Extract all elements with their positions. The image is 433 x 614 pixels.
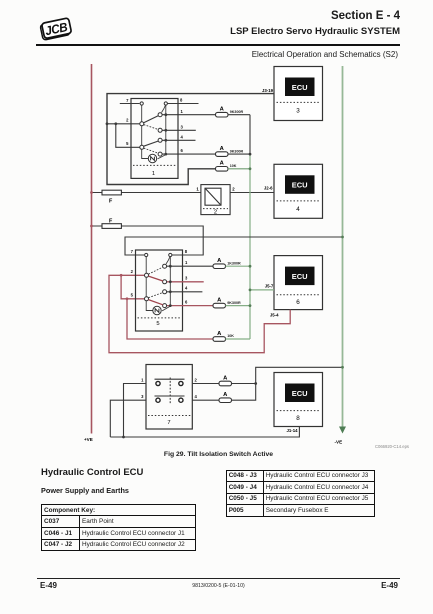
svg-text:A: A: [220, 107, 225, 113]
figure caption: [0, 451, 433, 458]
svg-text:2: 2: [214, 210, 217, 216]
svg-text:5: 5: [126, 141, 129, 146]
footer left page number: [40, 581, 57, 590]
SW5 pin 3 stub wire (live): [167, 281, 204, 283]
fuse F2 feed wire to SW5 pin 8: [92, 226, 204, 255]
ECU connector block 3 (C048-J3): [274, 67, 323, 121]
junction at (255.7,383.5): [254, 382, 257, 385]
svg-text:7: 7: [131, 249, 134, 254]
SW1 pin 4 stub wire: [162, 139, 196, 141]
wire: relay pin 1 to J1-14 rail: [124, 384, 147, 438]
svg-text:10K: 10K: [227, 334, 234, 338]
section heading: [41, 467, 143, 478]
SW5 fixed contact pin 6: [163, 304, 167, 308]
ECU connector block 8 (C046-J1): [274, 373, 323, 427]
SW1 fixed contact pin 4: [158, 138, 162, 142]
svg-text:A: A: [220, 146, 225, 152]
wire: resistor A1 output to sense bus: [228, 114, 250, 116]
SW1 contact pin 7: [140, 102, 143, 105]
svg-text:A: A: [223, 375, 228, 381]
SW1 fixed contact pin 3: [158, 128, 162, 132]
wire: SW1 pin 1 to resistor A1: [162, 114, 216, 116]
wire: resistor A4 output to sense bus: [226, 265, 251, 267]
svg-text:8: 8: [296, 415, 300, 422]
svg-text:9K300R: 9K300R: [230, 149, 244, 153]
component key table (left): [41, 504, 196, 551]
svg-text:J5-7: J5-7: [265, 284, 274, 289]
SW1 contact pin 8: [164, 102, 167, 105]
resistor A1 (9K300R) body: [216, 112, 229, 117]
junction on +VE rail at fuse F1: [90, 191, 93, 194]
svg-text:ECU: ECU: [292, 83, 308, 92]
junction at (121.1,275.3): [120, 274, 123, 277]
header: subtitle: [230, 26, 400, 37]
wire: SW1 pin 2 branch: [107, 123, 140, 125]
fuse F1 body: [102, 190, 121, 195]
svg-text:2: 2: [131, 269, 134, 274]
svg-text:7: 7: [167, 420, 170, 426]
junction earth bus / relay sense: [341, 366, 344, 369]
svg-text:6: 6: [181, 148, 184, 153]
SW1 pin 7 stub wire: [120, 103, 140, 105]
svg-text:4: 4: [185, 286, 188, 291]
SW5 moving contact 2-1 (open, dashed): [148, 267, 163, 274]
svg-text:4: 4: [296, 206, 300, 213]
power rail +VE (red battery feed bus): [91, 64, 93, 434]
svg-text:5: 5: [131, 292, 134, 297]
svg-text:1: 1: [181, 109, 184, 114]
svg-text:5: 5: [156, 321, 159, 327]
SW1 lamp link from pin 6 row: [158, 155, 166, 159]
SW1 moving contact 5-4 (closed): [144, 141, 159, 146]
SW5 pin 4 stub wire: [167, 291, 203, 293]
SW5 pin 6 wire to resistor A5 (live): [167, 305, 214, 307]
svg-text:+VE: +VE: [84, 437, 93, 442]
SW1 illumination lamp: [148, 154, 156, 162]
wire: SW1 pin 5 branch: [116, 124, 140, 148]
junction at (127,298.8): [126, 297, 129, 300]
svg-text:ECU: ECU: [292, 181, 308, 190]
svg-text:J1-14: J1-14: [287, 428, 299, 433]
svg-text:1: 1: [141, 378, 144, 383]
svg-text:8: 8: [180, 98, 183, 103]
svg-text:A: A: [217, 298, 222, 304]
SW5 fixed contact pin 2: [145, 273, 149, 277]
wire: resistor A3 output to sense bus: [228, 168, 250, 170]
svg-text:A: A: [223, 392, 228, 398]
svg-text:3: 3: [296, 108, 300, 115]
svg-text:J3-19: J3-19: [262, 88, 274, 93]
svg-text:1: 1: [152, 171, 155, 177]
svg-text:2: 2: [232, 187, 235, 192]
SW1 fixed contact pin 2: [140, 122, 144, 126]
SW5 fixed contact pin 1: [163, 264, 167, 268]
sense bus upper segment (black): [249, 115, 251, 154]
SW5 pin number labels: [131, 249, 188, 305]
SW1 moving contact 2-1 (closed): [144, 116, 159, 123]
junction sense bus / A3: [249, 167, 252, 170]
SW1 link bus junction dots: [164, 113, 167, 155]
footer right page number: [381, 581, 398, 590]
svg-text:A: A: [217, 331, 222, 337]
svg-text:J5-4: J5-4: [270, 312, 279, 317]
svg-text:9K300R: 9K300R: [230, 110, 244, 114]
fuse F2 body: [102, 224, 121, 229]
junction on +VE rail at fuse F2: [90, 225, 93, 228]
relay actuator dashed link: [169, 378, 171, 405]
wire: relay pin 3 to J1-14 rail: [110, 400, 146, 437]
svg-text:A: A: [220, 161, 225, 167]
diode block 2 body: [201, 185, 230, 216]
svg-text:7: 7: [126, 98, 129, 103]
svg-text:4: 4: [181, 134, 184, 139]
SW1 pin 3 stub wire: [162, 129, 196, 131]
diode block 2 inner diode symbol: [205, 188, 221, 205]
relay pin number labels: [141, 378, 197, 400]
svg-text:ECU: ECU: [292, 272, 308, 281]
wire: relay pin 4 to resistor A8: [192, 399, 219, 401]
svg-text:1: 1: [196, 187, 199, 192]
resistor A3 (10K) body: [216, 167, 229, 172]
wire: relay pin 2 to resistor A7: [192, 383, 219, 385]
red wire: SW5 pin 5 branch: [121, 275, 144, 299]
svg-text:A: A: [217, 258, 222, 264]
relay block 7 body: [146, 365, 192, 430]
fuse F1 (P005 fusebox) feed wire to diode block: [92, 192, 201, 194]
resistor A5 (9K300R) body: [213, 303, 226, 308]
SW5 lamp link from pin 7: [146, 255, 152, 311]
SW5 fixed contact pin 5: [145, 297, 149, 301]
footer rule: [37, 578, 400, 579]
svg-text:4: 4: [195, 394, 198, 399]
SW1 pin number labels: [126, 98, 183, 154]
junction at (107,123.8): [106, 122, 109, 125]
wire: resistor A5 output to sense bus: [226, 305, 251, 307]
svg-text:2: 2: [195, 378, 198, 383]
SW5 contact pin 8: [169, 253, 172, 256]
SW1 moving contact 2-3 (open, dashed): [144, 125, 159, 130]
SW1 pin 8 stub wire: [167, 103, 199, 105]
header: chapter line: [252, 50, 398, 59]
SW5 fixed contact pin 3: [163, 280, 167, 284]
ECU connector block 6 (C050-J5): [274, 256, 323, 310]
junction sense bus / A5: [249, 304, 252, 307]
SW5 moving contact arc 8-1: [166, 256, 170, 264]
SW5 pin 1 wire to resistor A4: [167, 265, 214, 267]
wire: resistor A8 output joining A7 output: [232, 384, 256, 401]
relay contact pair 1-2: [155, 379, 185, 385]
junction sense bus / A2: [249, 153, 252, 156]
wire: resistor A7 output to earth bus: [232, 367, 343, 383]
wire: resistor A2 output to sense bus: [228, 153, 250, 155]
SW1 moving contact 5-6 (open, dashed): [144, 148, 159, 153]
junction at (123.5,437): [122, 436, 125, 439]
wire: earth bus to SW5 pin 7 (lamp earth): [125, 237, 343, 255]
svg-text:2: 2: [126, 117, 129, 122]
SW1 internal link bus pins 8-1-3-4-6: [165, 105, 167, 154]
junction at (115.8,123.8): [114, 122, 117, 125]
wire: J1-14 bottom rail to ECU8: [110, 427, 299, 438]
red wire: ECU6 J5-4 supply chain: [109, 275, 290, 352]
svg-text:1: 1: [185, 260, 188, 265]
JCB logo: [33, 12, 79, 48]
SW1 fixed contact pin 1: [158, 113, 162, 117]
junction sense bus / J5-7: [249, 289, 252, 292]
ECU connector block 4 (C049-J4): [274, 164, 323, 218]
svg-text:3: 3: [141, 394, 144, 399]
SW5 internal link bus pins 8-1-3-4-6: [169, 257, 171, 306]
svg-text:-VE: -VE: [335, 440, 343, 445]
wire: diode output to ECU4 pin J2-6: [230, 192, 274, 194]
SW1 moving contact arc 8-1: [162, 105, 166, 113]
resistor A8 body: [219, 398, 232, 403]
svg-text:ECU: ECU: [292, 389, 308, 398]
svg-text:1K300R: 1K300R: [227, 261, 241, 265]
SW5 fixed contact pin 4: [163, 290, 167, 294]
junction sense bus / A4: [249, 265, 252, 268]
sub heading: [41, 486, 129, 495]
footer publication number: [0, 583, 433, 589]
SW1 lamp link from pin 7: [142, 104, 149, 159]
SW5 contact pin 7: [145, 253, 148, 256]
-VE arrowhead: [339, 427, 346, 434]
SW1 fixed contact pin 5: [140, 145, 144, 149]
red wire: SW5 10K branch: [127, 299, 213, 339]
SW5 lamp link from pin 6 row: [162, 306, 170, 311]
wire: SW1 pin 6 to resistor A2: [162, 153, 216, 155]
svg-text:8: 8: [185, 249, 188, 254]
header: section title: [331, 10, 400, 22]
tilt isolation switch SW5 (item 5) body: [136, 250, 183, 331]
svg-text:10K: 10K: [230, 164, 237, 168]
resistor A6 (10K) body: [213, 337, 226, 342]
header rule: [36, 44, 400, 46]
SW5 moving contact 5-4 (open, dashed): [148, 293, 163, 298]
relay contact pair 3-4: [155, 396, 185, 402]
sense bus lower segment (green) to ECU6 J5-7 and 10K rows: [249, 154, 251, 339]
resistor A4 (1K300R) body: [213, 264, 226, 269]
power rail -VE (green earth bus): [342, 66, 344, 427]
component key table (right): [226, 470, 375, 517]
svg-text:6: 6: [296, 299, 300, 306]
svg-text:C066920-C14.eps: C066920-C14.eps: [375, 444, 409, 449]
svg-text:J2-6: J2-6: [264, 186, 273, 191]
SW5 moving contact 2-3 (closed, live): [148, 276, 163, 281]
SW5 moving contact 5-6 (closed, live): [148, 300, 163, 305]
svg-text:3: 3: [185, 276, 188, 281]
resistor A7 body: [219, 381, 232, 386]
SW5 illumination lamp: [153, 306, 161, 314]
tilt isolation switch SW1 (item 1) body: [131, 99, 178, 179]
SW5 link bus junction dots: [169, 265, 172, 307]
wire: resistor A6 output to sense bus: [226, 338, 251, 340]
SW1 fixed contact pin 6: [158, 152, 162, 156]
wire: ECU3 pin J3-19 feed to switch SW1 pins 2/5 and 10K divider: [107, 94, 274, 185]
svg-text:3: 3: [181, 124, 184, 129]
svg-text:F: F: [109, 199, 113, 205]
junction earth bus / SW5 lamp wire: [341, 236, 344, 239]
svg-text:9K300R: 9K300R: [227, 301, 241, 305]
resistor A2 (9K300R) body: [216, 152, 229, 157]
svg-text:6: 6: [185, 300, 188, 305]
SW5 pin 8 stub wire: [172, 254, 204, 256]
wire: sense bus to ECU6 pin J5-7: [250, 289, 274, 291]
